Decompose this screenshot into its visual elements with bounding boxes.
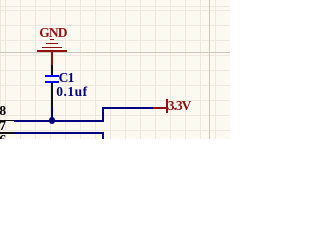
major grid horizontal line <box>0 52 230 53</box>
pin 8 <box>0 120 14 122</box>
wire step to power <box>102 107 154 109</box>
capacitor C1 value label 0.1uf <box>56 85 87 99</box>
capacitor C1 top pin <box>51 65 53 76</box>
major grid vertical line <box>209 0 210 139</box>
wire pin8 to step <box>14 120 104 122</box>
pin number 8 <box>0 104 6 118</box>
capacitor C1 bottom pin <box>51 83 53 107</box>
capacitor C1 top plate <box>45 75 60 77</box>
wire pin7 horizontal <box>14 132 103 134</box>
ground GND label <box>39 26 66 40</box>
pin 7 <box>0 132 14 134</box>
pin number 6 <box>0 133 6 147</box>
capacitor C1 bottom plate <box>45 81 60 83</box>
ground symbol bars <box>50 39 54 41</box>
ground stem wire <box>51 52 53 65</box>
wire capacitor to junction <box>51 107 53 120</box>
wire pin7 vertical drop <box>102 132 104 139</box>
capacitor C1 designator label <box>59 71 74 85</box>
power 3.3V bar <box>166 99 168 113</box>
power 3.3V label <box>168 99 191 113</box>
wire vertical step <box>102 107 104 122</box>
junction dot <box>49 117 55 123</box>
power 3.3V lead <box>153 107 166 109</box>
pin number 7 <box>0 119 6 133</box>
